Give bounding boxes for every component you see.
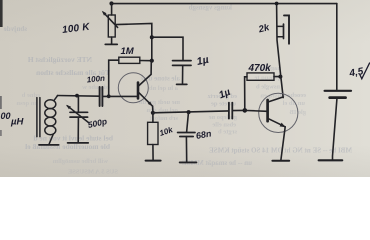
node junction R2/wiper/collector — [150, 59, 154, 63]
potentiometer R1 100K — [102, 4, 118, 44]
svg-text:ed gube w: ed gube w — [82, 84, 110, 91]
wire Q1 emitter to C5 — [153, 111, 229, 113]
svg-text:srgte b: srgte b — [218, 129, 237, 136]
node junction R2 to base wire — [107, 94, 111, 98]
capacitor C2 1u — [173, 61, 191, 84]
svg-text:µH: µH — [10, 117, 24, 128]
svg-text:00: 00 — [1, 111, 11, 121]
svg-text:SUS 5 A MSUSSE: SUS 5 A MSUSSE — [68, 169, 118, 176]
node junction 68n tap — [187, 110, 191, 114]
wire C1 to Q1 base — [103, 95, 137, 97]
ground below C2 — [177, 83, 187, 85]
svg-text:un qesn: un qesn — [16, 100, 38, 107]
wire wiper of R1 to node A — [115, 23, 152, 60]
capacitor C4 68n — [178, 112, 195, 162]
variable capacitor C0 500p — [66, 96, 89, 143]
node top-left junction — [109, 1, 113, 5]
resistor R4 470k — [245, 73, 281, 111]
svg-text:nswgle b: nswgle b — [256, 84, 280, 91]
svg-text:NTE vorzüglichst H: NTE vorzüglichst H — [28, 55, 92, 64]
ground below Q2 — [272, 160, 289, 162]
wire node A to capacitor C2 — [152, 37, 183, 59]
svg-text:kungs vgsnsgb: kungs vgsnsgb — [189, 4, 232, 12]
ground below C0 — [68, 142, 89, 144]
transistor Q1 — [118, 61, 153, 113]
dark scan edge top-left — [0, 0, 3, 27]
node Q1 emitter junction — [151, 111, 155, 115]
node junction R4/collector rail — [278, 75, 282, 79]
svg-text:a lu qel nb: a lu qel nb — [149, 85, 178, 92]
capacitor C5 1u coupling — [229, 103, 243, 119]
transistor Q2 — [247, 93, 298, 132]
wire +V top rail — [111, 3, 336, 5]
node junction C5/R4/Q2 base — [243, 108, 248, 113]
ground below L1 — [39, 144, 59, 146]
ground below B1 — [319, 159, 343, 161]
node top rail junction — [275, 2, 279, 6]
svg-text:1µ: 1µ — [196, 54, 210, 68]
svg-text:sbnjvde: sbnjvde — [4, 25, 27, 33]
svg-text:MBI he -- SE nt NG ht DM 14 SO: MBI he -- SE nt NG ht DM 14 SO stsüqt KM… — [209, 146, 352, 154]
wire Q2 emitter to ground — [281, 127, 285, 160]
battery B1 4.5V — [325, 4, 351, 160]
ground below C4 — [180, 161, 197, 163]
resistor R3 10k — [148, 113, 158, 160]
faint mirrored bleed-through print from reverse page side — [4, 4, 352, 176]
label 4,5 V — [348, 63, 370, 80]
svg-text:ebsn elle: ebsn elle — [212, 122, 236, 129]
handwritten value labels — [1, 22, 370, 141]
svg-text:470k: 470k — [248, 63, 272, 74]
svg-text:100n: 100n — [86, 74, 105, 85]
node A junction dot — [150, 35, 154, 39]
inductor L1 antenna coil with ferrite core — [37, 96, 58, 145]
capacitor C1 100n — [100, 87, 103, 106]
svg-text:me uedt get dn: me uedt get dn — [139, 99, 180, 106]
label 00 uH coil value — [1, 111, 25, 128]
resistor R2 1M — [109, 57, 152, 96]
wire tank circuit to C1 — [57, 95, 99, 98]
wire collector rail from top rail to Q2 — [277, 4, 284, 98]
svg-text:1M: 1M — [121, 46, 135, 57]
ground below R3 — [146, 160, 161, 162]
node junction tank top — [75, 94, 79, 98]
svg-text:will brlbe usmögllm: will brlbe usmögllm — [52, 158, 108, 165]
earphone LS 2k — [277, 15, 289, 43]
ground below R1 — [105, 43, 117, 45]
